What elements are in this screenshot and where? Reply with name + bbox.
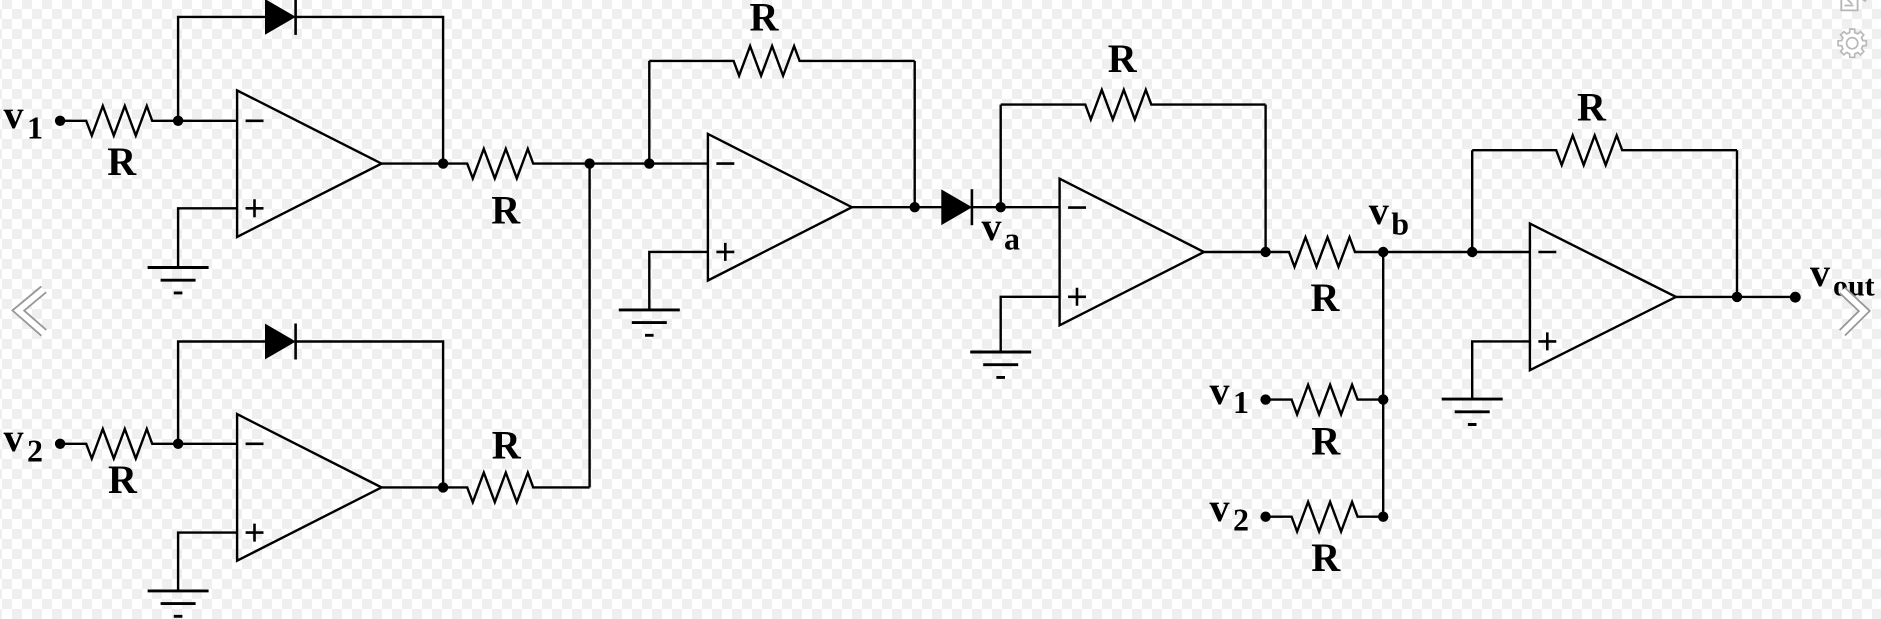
junction U4 output	[1260, 247, 1270, 257]
wire U5 feedback right vertical	[1736, 150, 1738, 297]
resistor R (input v1)	[60, 106, 178, 136]
svg-text:R: R	[1311, 275, 1341, 320]
op-amp U3	[708, 134, 852, 281]
wire U2 output	[382, 486, 444, 488]
junction summing v2	[1378, 512, 1388, 522]
resistor R (summing input v2)	[1266, 502, 1384, 532]
svg-text:R: R	[749, 0, 779, 40]
ground (U1)	[148, 268, 209, 293]
UI left nav chevron	[18, 289, 44, 333]
U1 minus symbol	[246, 120, 264, 123]
wire U5 non-inverting input to ground	[1472, 341, 1530, 399]
resistor R (U5 feedback)	[1472, 135, 1737, 165]
resistor R (U4 output to node vb)	[1266, 237, 1384, 267]
wire U5 feedback left vertical	[1471, 150, 1473, 252]
wire U1 output	[382, 162, 444, 164]
wire U2 feedback top right	[296, 342, 444, 488]
svg-text:v2: v2	[4, 415, 44, 469]
junction node A (U1 inverting input)	[173, 116, 183, 126]
junction U3 feedback tap	[644, 158, 654, 168]
wire U3 non-inverting input to ground	[649, 252, 708, 310]
UI gear (settings) icon	[1838, 29, 1866, 57]
op-amp U1	[237, 90, 381, 237]
wire U2 non-inverting input to ground	[178, 533, 237, 591]
junction summing node (x=589.6)	[584, 158, 594, 168]
wire U3 output	[852, 206, 943, 208]
wire node vb down to summing resistors	[1382, 252, 1384, 517]
svg-text:va: va	[982, 204, 1021, 256]
wire U1 feedback top right	[296, 17, 444, 164]
svg-text:R: R	[107, 139, 137, 184]
op-amp U4	[1060, 179, 1204, 326]
svg-text:R: R	[108, 457, 138, 502]
wire summing node to U3 inverting input	[590, 162, 708, 164]
diode D3 cathode bar	[971, 189, 974, 225]
U2 minus symbol	[246, 442, 264, 445]
wire U4 output	[1204, 251, 1266, 253]
terminal dot vout	[1790, 292, 1801, 303]
wire U4 feedback left vertical	[1000, 105, 1002, 208]
junction node vb	[1378, 247, 1388, 257]
junction U3 output	[910, 202, 920, 212]
U3 plus symbol	[716, 243, 734, 261]
diode D3 (at node va)	[943, 191, 970, 223]
terminal dot v1 input	[55, 116, 65, 126]
svg-text:v2: v2	[1210, 485, 1250, 537]
junction U5 output	[1732, 292, 1742, 302]
junction U1 output	[438, 158, 448, 168]
wire U2 feedback left vertical	[178, 342, 266, 444]
svg-text:v1: v1	[4, 92, 44, 146]
svg-text:R: R	[1311, 418, 1341, 463]
diode D2 (U2 feedback)	[266, 326, 293, 358]
UI gear icon center hole	[1847, 38, 1858, 49]
terminal dot summing v2	[1260, 512, 1270, 522]
wire U5 output to terminal vout	[1676, 296, 1795, 298]
junction node va	[996, 202, 1006, 212]
svg-text:R: R	[1311, 535, 1341, 580]
UI right nav chevron	[1842, 290, 1864, 333]
junction U5 feedback tap	[1467, 247, 1477, 257]
ground (U4)	[970, 352, 1031, 377]
UI tiny mark (clipped at top edge)	[1863, 0, 1867, 1]
U5 plus symbol	[1538, 332, 1556, 350]
ground (U5)	[1442, 399, 1503, 424]
svg-text:v1: v1	[1210, 368, 1250, 420]
terminal dot v2 input	[55, 439, 65, 449]
wire U3 feedback right vertical	[914, 61, 916, 207]
op-amp U2	[237, 414, 381, 561]
terminal dot summing v1	[1260, 394, 1270, 404]
wire node vb to U5 inverting input	[1383, 251, 1530, 253]
diode D1 (U1 feedback)	[266, 1, 293, 33]
wire U4 feedback right vertical	[1264, 105, 1266, 252]
junction U2 output	[438, 482, 448, 492]
svg-text:R: R	[491, 188, 521, 233]
U2 plus symbol	[246, 524, 264, 542]
resistor R (U3 feedback)	[649, 46, 914, 76]
U1 plus symbol	[246, 199, 264, 217]
UI partial edit icon (clipped at top edge)	[1841, 0, 1857, 10]
junction summing v1	[1378, 394, 1388, 404]
wire U4 non-inverting input to ground	[1001, 297, 1060, 352]
resistor R (input v2)	[60, 429, 178, 459]
svg-text:R: R	[1577, 85, 1607, 130]
junction node B (U2 inverting input)	[173, 439, 183, 449]
resistor R (U2 output)	[443, 473, 589, 503]
wire U1 feedback left vertical	[178, 17, 266, 121]
wire node A to op-amp U1 inverting input	[178, 120, 237, 122]
U3 minus symbol	[716, 162, 734, 165]
svg-text:vb: vb	[1369, 188, 1409, 242]
ground (U2)	[148, 591, 209, 616]
svg-text:R: R	[1108, 36, 1138, 81]
wire U1 non-inverting input to ground	[178, 208, 237, 267]
wire joining stage outputs (vertical x=589.6)	[588, 164, 590, 488]
wire U3 feedback left vertical	[648, 61, 650, 164]
resistor R (U4 feedback)	[1001, 90, 1266, 120]
resistor R (summing input v1)	[1266, 385, 1384, 415]
svg-text:R: R	[492, 422, 522, 467]
wire D3 cathode to node va	[972, 206, 1060, 208]
resistor R (U1 output)	[443, 149, 589, 179]
U4 plus symbol	[1068, 288, 1086, 306]
U5 minus symbol	[1538, 251, 1556, 254]
wire node B to op-amp U2 inverting input	[178, 443, 237, 445]
U4 minus symbol	[1068, 206, 1086, 209]
diode D2 cathode bar	[294, 324, 297, 360]
ground (U3)	[619, 310, 680, 335]
diode D1 cathode bar	[294, 0, 297, 35]
op-amp U5	[1530, 224, 1676, 371]
